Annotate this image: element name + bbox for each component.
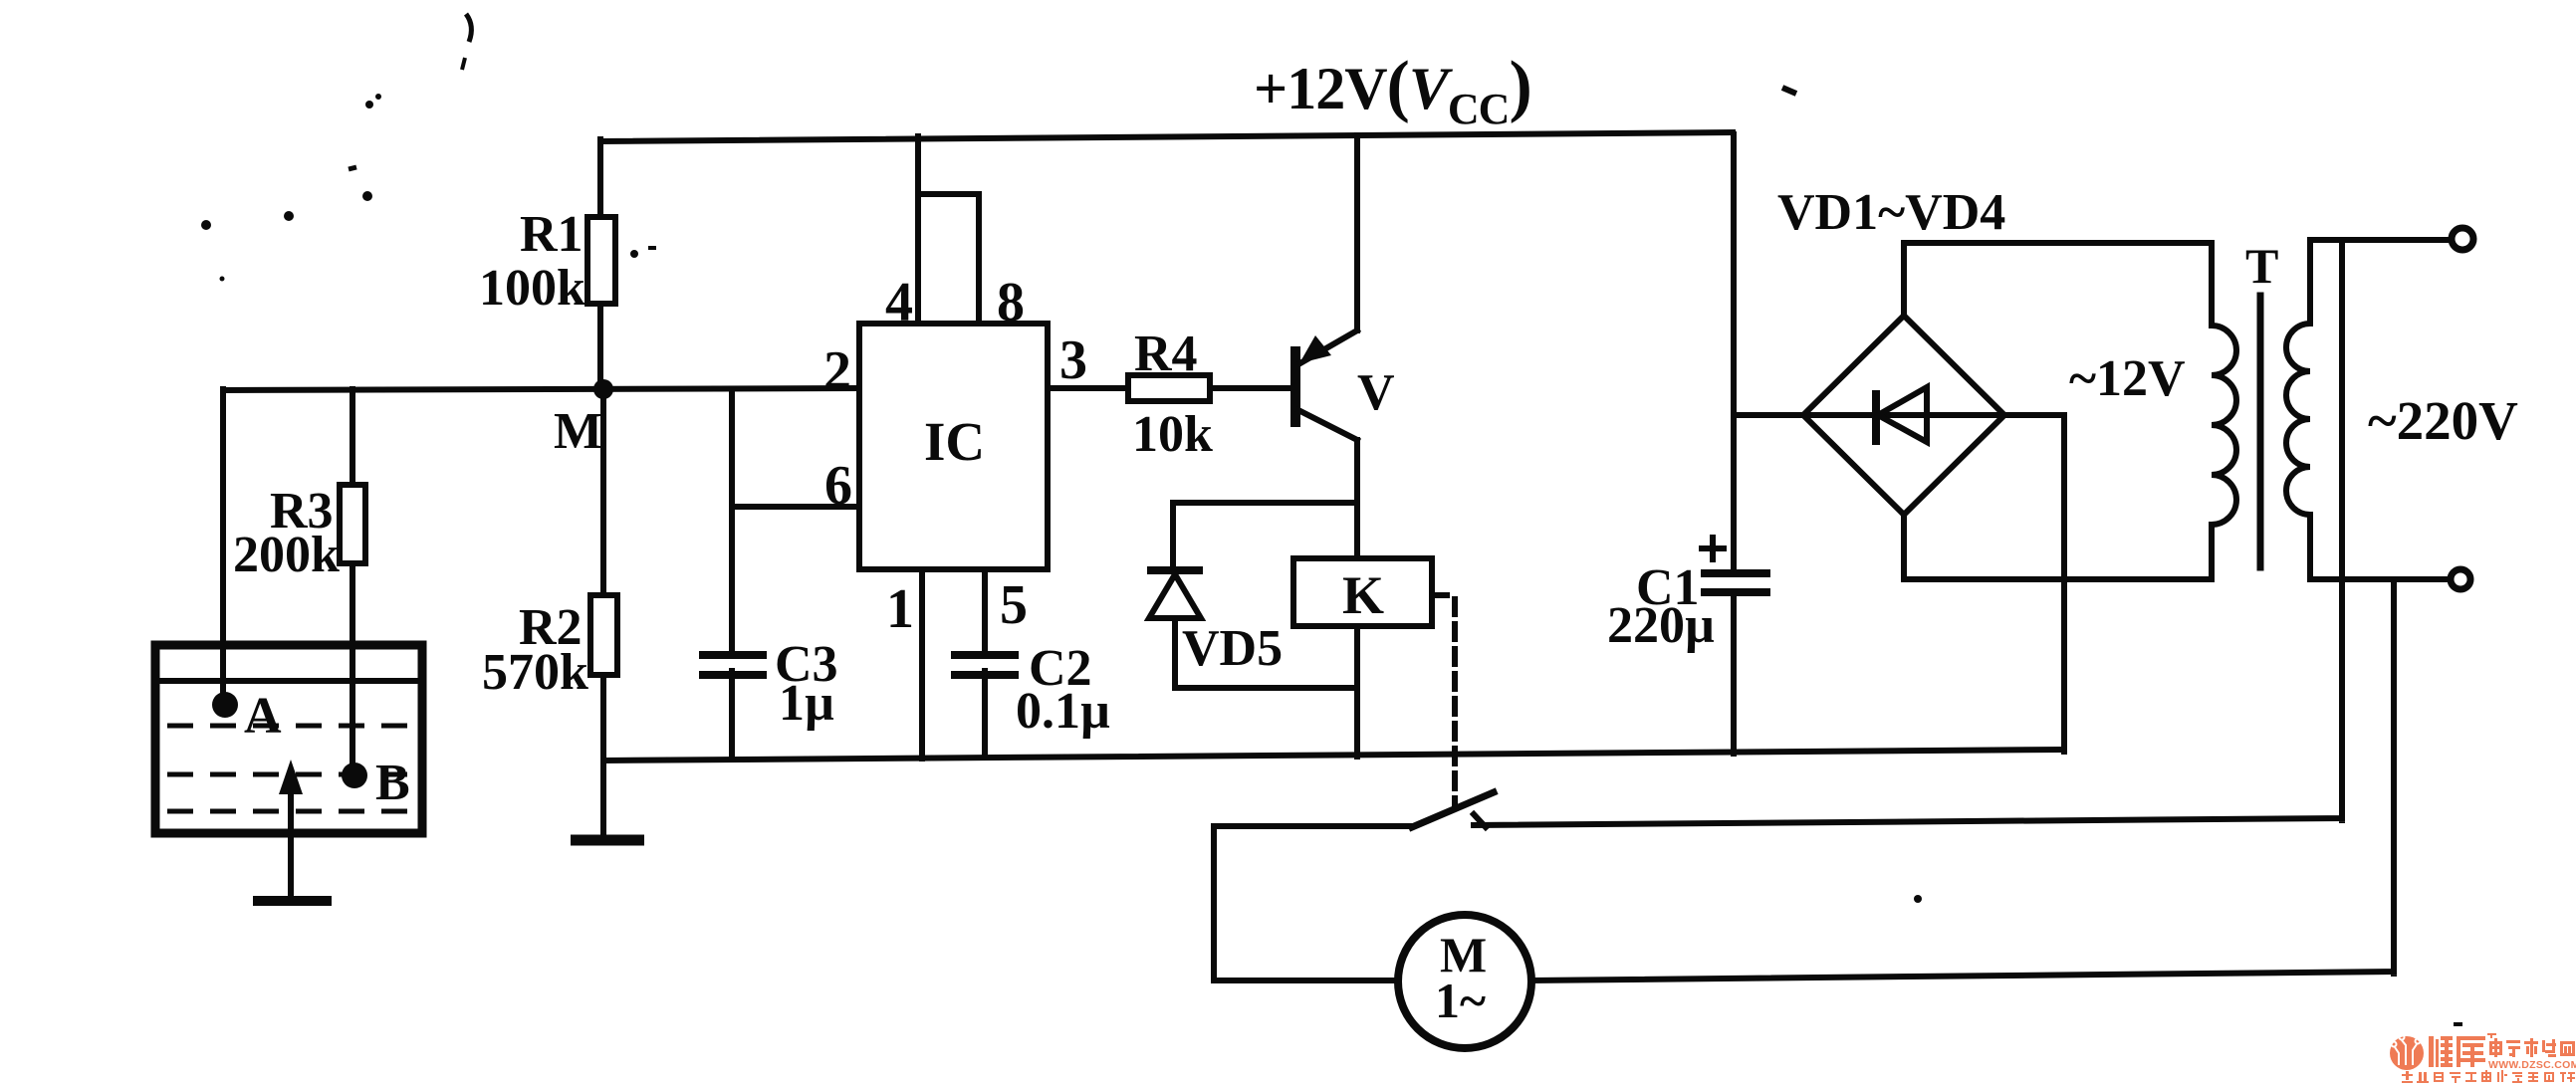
svg-text:R1: R1: [520, 206, 584, 263]
svg-text:R4: R4: [1134, 326, 1198, 382]
svg-text:570k: 570k: [482, 644, 588, 701]
svg-text:~220V: ~220V: [2368, 390, 2518, 451]
svg-text:4: 4: [885, 272, 913, 333]
svg-text:10k: 10k: [1132, 406, 1213, 463]
svg-text:0.1µ: 0.1µ: [1016, 683, 1110, 740]
svg-text:VD1~VD4: VD1~VD4: [1777, 184, 2005, 241]
svg-text:1µ: 1µ: [779, 675, 834, 732]
svg-text:220µ: 220µ: [1607, 597, 1715, 654]
svg-text:2: 2: [823, 340, 851, 402]
svg-text:B: B: [375, 755, 410, 811]
svg-text:6: 6: [824, 455, 852, 517]
svg-text:1~: 1~: [1435, 973, 1486, 1028]
svg-text:M: M: [554, 403, 602, 460]
svg-text:V: V: [1357, 364, 1395, 421]
svg-text:WWW.DZSC.COM: WWW.DZSC.COM: [2488, 1059, 2576, 1071]
svg-text:200k: 200k: [233, 527, 340, 583]
svg-text:8: 8: [997, 272, 1025, 333]
svg-text:1: 1: [886, 578, 914, 640]
svg-text:A: A: [244, 688, 282, 745]
svg-text:3: 3: [1059, 329, 1087, 391]
svg-text:IC: IC: [924, 411, 985, 472]
svg-text:~12V: ~12V: [2069, 350, 2186, 407]
svg-text:T: T: [2245, 238, 2278, 294]
svg-text:VD5: VD5: [1182, 620, 1283, 677]
svg-text:100k: 100k: [479, 260, 585, 317]
svg-text:K: K: [1342, 565, 1384, 625]
svg-text:5: 5: [1000, 574, 1028, 636]
